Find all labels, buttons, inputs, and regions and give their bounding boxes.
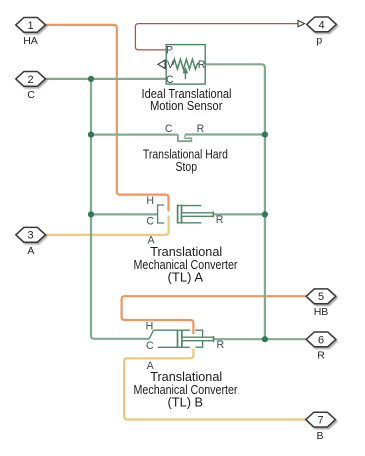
wire green hard stop left xyxy=(91,134,178,136)
sensor PS output triangle xyxy=(158,60,165,68)
wire green converter B R to R xyxy=(214,338,306,340)
svg-text:C: C xyxy=(166,74,174,86)
svg-text:H: H xyxy=(146,195,154,207)
wire orange HB to converter B H port xyxy=(122,296,307,334)
svg-text:HB: HB xyxy=(314,306,329,318)
svg-text:C: C xyxy=(165,123,173,135)
svg-text:C: C xyxy=(27,89,35,101)
converter B piston bars xyxy=(177,330,179,348)
port 3 A xyxy=(16,227,46,257)
svg-text:H: H xyxy=(146,320,154,332)
svg-text:(TL) A: (TL) A xyxy=(168,269,204,284)
converter A bracket xyxy=(158,205,165,223)
wire green left vertical to converter B C xyxy=(91,79,149,339)
junction node converter A right xyxy=(262,211,268,217)
svg-text:HA: HA xyxy=(23,35,38,47)
wire orange HA to converter A H port xyxy=(45,25,168,212)
converter B Translational Mechanical Converter (TL) B xyxy=(146,320,225,372)
svg-text:B: B xyxy=(316,430,323,442)
svg-text:4: 4 xyxy=(318,19,324,31)
wire green sensor R right vertical xyxy=(206,64,265,339)
svg-text:Stop: Stop xyxy=(176,159,198,174)
svg-text:R: R xyxy=(317,349,325,361)
converter A cylinder walls xyxy=(178,205,202,207)
wire maroon sensor P to p xyxy=(135,24,297,50)
svg-text:P: P xyxy=(166,44,173,56)
converter B bracket xyxy=(195,330,202,347)
port 7 B xyxy=(306,412,336,442)
svg-text:7: 7 xyxy=(318,415,324,427)
svg-text:p: p xyxy=(316,35,322,47)
port 5 HB xyxy=(306,289,336,318)
svg-text:R: R xyxy=(197,123,205,135)
junction node port C line xyxy=(88,76,94,82)
sensor up arrow xyxy=(184,73,186,80)
svg-text:C: C xyxy=(146,215,154,227)
wire green hard stop right xyxy=(185,133,265,135)
junction node converter B R line xyxy=(262,336,268,342)
port 6 R xyxy=(306,332,336,361)
port 4 p xyxy=(307,17,337,47)
hard stop icon xyxy=(178,135,191,142)
converter B diagonal from C xyxy=(149,330,153,339)
svg-text:R: R xyxy=(198,59,206,71)
converter B rod xyxy=(182,337,214,341)
wire yellow converter B A port to B xyxy=(124,349,306,420)
junction node hard stop right xyxy=(262,132,268,138)
converter A rod xyxy=(182,213,214,217)
svg-text:V: V xyxy=(167,59,175,71)
converter B cylinder walls xyxy=(154,329,190,331)
svg-text:1: 1 xyxy=(28,20,34,32)
junction node converter A left xyxy=(88,211,94,217)
svg-text:A: A xyxy=(27,245,34,257)
wire green C to sensor C xyxy=(45,78,166,80)
svg-text:Motion Sensor: Motion Sensor xyxy=(150,98,223,113)
wire green converter A R xyxy=(214,213,265,215)
sensor zigzag xyxy=(171,59,199,69)
converter A Translational Mechanical Converter (TL) A xyxy=(146,195,223,246)
converter A piston bars xyxy=(177,205,179,224)
svg-text:6: 6 xyxy=(318,334,324,346)
svg-text:2: 2 xyxy=(28,74,34,86)
svg-text:R: R xyxy=(216,214,224,226)
wire green converter A C xyxy=(91,213,158,215)
arrowhead at port p xyxy=(298,20,305,26)
svg-text:(TL) B: (TL) B xyxy=(168,394,204,409)
sensor U1 Ideal Translational Motion Sensor xyxy=(158,44,206,86)
svg-text:5: 5 xyxy=(318,291,324,303)
svg-text:C: C xyxy=(146,340,154,352)
port 1 HA xyxy=(16,18,46,48)
wire yellow A to converter A A port xyxy=(45,216,168,235)
junction node hard stop left xyxy=(88,132,94,138)
svg-text:3: 3 xyxy=(28,230,34,242)
svg-text:R: R xyxy=(216,339,224,351)
port 2 C xyxy=(16,72,46,102)
